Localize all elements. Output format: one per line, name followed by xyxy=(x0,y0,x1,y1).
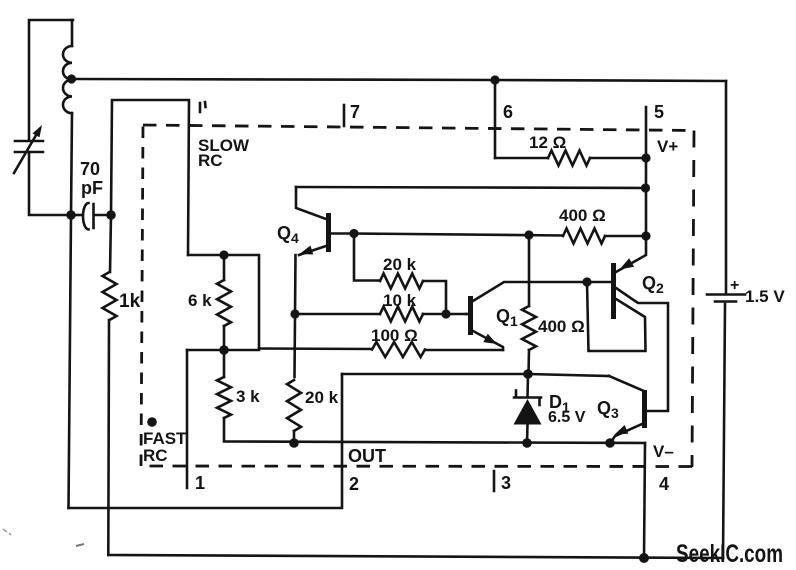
wire mid rail xyxy=(296,187,645,188)
svg-text:400 Ω: 400 Ω xyxy=(559,206,606,225)
transistor Q2 xyxy=(587,236,668,411)
svg-text:SeekIC.com: SeekIC.com xyxy=(676,540,783,568)
node cap right xyxy=(106,210,116,220)
pin 3 xyxy=(493,471,496,491)
svg-text:2: 2 xyxy=(349,474,359,494)
node FAST RC dot xyxy=(147,417,157,427)
svg-text:7: 7 xyxy=(350,102,360,122)
pin 5 / V+ riser xyxy=(645,107,648,236)
svg-text:6 k: 6 k xyxy=(188,291,212,310)
resistor 20k (mid) xyxy=(354,234,446,315)
svg-text:1: 1 xyxy=(195,473,205,493)
pin mark top xyxy=(199,103,202,112)
wire bottom rail xyxy=(108,555,723,558)
IC outline dashed box xyxy=(141,125,694,467)
node Q3 emitter xyxy=(605,438,615,448)
pin 4 xyxy=(644,443,645,558)
node 400ohm mid xyxy=(524,230,533,239)
battery 1.5 V xyxy=(707,81,745,558)
svg-text:10 k: 10 k xyxy=(383,291,417,310)
svg-text:V+: V+ xyxy=(657,137,678,156)
resistor 400 ohm (vertical) xyxy=(522,235,536,374)
wire pin1 row xyxy=(187,349,259,352)
node diode top xyxy=(523,369,533,379)
node bottom rail xyxy=(639,553,649,563)
transistor Q1 xyxy=(466,282,587,350)
svg-text:1k: 1k xyxy=(119,291,141,312)
node diode bottom xyxy=(522,438,532,448)
svg-text:pF: pF xyxy=(81,178,103,198)
wire out-return xyxy=(69,374,343,508)
svg-text:400 Ω: 400 Ω xyxy=(538,317,585,336)
resistor 3k xyxy=(217,350,645,443)
node mid rail right xyxy=(641,183,650,192)
node 10k left xyxy=(290,309,299,318)
resistor 100 ohm xyxy=(259,342,503,357)
svg-text:3 k: 3 k xyxy=(236,387,260,406)
resistor 10k xyxy=(295,307,466,322)
diode D1 (zener) xyxy=(514,374,542,443)
svg-text:20 k: 20 k xyxy=(305,388,339,407)
svg-text:3: 3 xyxy=(501,473,511,493)
resistor 20k (lower) xyxy=(287,380,301,443)
node 12ohm right xyxy=(641,153,650,162)
wire xyxy=(29,20,73,140)
variable capacitor xyxy=(14,125,43,173)
node 20k bottom xyxy=(289,438,299,448)
svg-text:1.5 V: 1.5 V xyxy=(745,287,785,306)
node Q1 base xyxy=(441,309,450,318)
svg-text:OUT: OUT xyxy=(348,446,386,466)
svg-text:20 k: 20 k xyxy=(383,255,417,274)
wire top rail xyxy=(71,79,726,81)
pin 1 xyxy=(186,350,189,488)
svg-text:RC: RC xyxy=(198,151,223,170)
node coil tap xyxy=(67,74,76,83)
svg-text:5: 5 xyxy=(654,102,664,122)
node 6k bottom xyxy=(219,345,229,355)
wire Q4 emitter drop xyxy=(295,255,296,377)
svg-text:12 Ω: 12 Ω xyxy=(529,133,566,152)
speck xyxy=(3,529,11,535)
wire xyxy=(69,215,72,508)
wire xyxy=(71,20,74,46)
transistor Q4 xyxy=(296,187,353,255)
svg-text:4: 4 xyxy=(659,474,669,494)
inductor L1 xyxy=(63,46,72,113)
node 6k top xyxy=(219,250,228,259)
wire out upper xyxy=(342,374,609,376)
node Q2 base xyxy=(582,277,591,286)
pin 6 xyxy=(494,80,497,158)
resistor 400 ohm (upper) xyxy=(354,229,646,244)
transistor Q3 xyxy=(609,376,645,442)
svg-text:6: 6 xyxy=(503,102,513,122)
node Q4 base xyxy=(349,229,358,238)
wire 6k top run xyxy=(188,255,259,348)
wire xyxy=(29,152,69,215)
svg-text:RC: RC xyxy=(143,446,168,465)
node cap left xyxy=(66,210,76,220)
svg-text:+: + xyxy=(730,277,739,294)
wire slow-rc riser xyxy=(111,100,189,255)
svg-text:100 Ω: 100 Ω xyxy=(371,326,418,345)
resistor 6k xyxy=(217,255,231,350)
pin 7 xyxy=(343,105,346,126)
node Q2 emitter top xyxy=(641,231,650,240)
wire xyxy=(71,113,72,215)
capacitor 70 pF xyxy=(71,203,111,229)
resistor 12 ohm xyxy=(495,151,646,166)
svg-text:70: 70 xyxy=(80,159,100,179)
svg-text:6.5 V: 6.5 V xyxy=(548,409,586,426)
node top rail / pin 6 xyxy=(490,75,499,84)
resistor 1k xyxy=(103,215,117,555)
svg-text:V–: V– xyxy=(653,442,674,461)
